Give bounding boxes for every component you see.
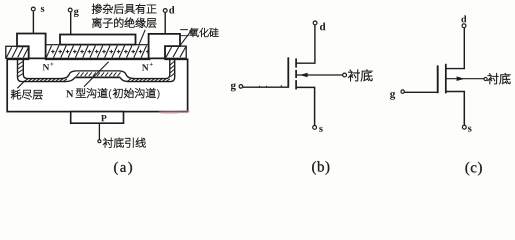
label: substrate lead (chen di yin xian) — [103, 138, 146, 148]
pointer from depletion label to depletion band — [17, 81, 25, 89]
drain metal contact — [149, 34, 180, 59]
annotation: doped insulating layer with positive ions (line 2) — [92, 18, 156, 28]
gate electrode bar (b) — [287, 57, 289, 88]
gate metal electrode — [60, 35, 136, 45]
label s — [41, 7, 45, 12]
stray tick marks on gate lead (b) — [260, 85, 282, 87]
label: substrate (b) — [348, 70, 372, 82]
channel segment top (b) — [295, 58, 297, 67]
drain connection (b) — [297, 25, 315, 63]
caption (a) — [114, 162, 132, 175]
N-type channel bottom line — [75, 76, 120, 78]
right N+ well inner boundary — [120, 59, 170, 78]
label s (b) — [319, 127, 323, 132]
drain contact window (gap in surface line) — [150, 58, 164, 60]
N-type channel top line — [76, 70, 120, 72]
MOSFET symbol (b): gate terminal g — [239, 85, 287, 89]
drain connection (c) — [447, 28, 465, 69]
left SiO2 oxide block — [6, 46, 29, 58]
drain terminal d (b) — [313, 21, 317, 25]
left N+ well inner boundary — [23, 59, 75, 78]
label d (b) — [320, 23, 326, 31]
source metal contact — [17, 34, 46, 59]
substrate terminal circle (c) — [484, 77, 487, 80]
MOSFET symbol (c): gate terminal g — [401, 90, 438, 93]
label d (c) — [461, 15, 466, 22]
pointer from SiO2 annotation to right oxide block — [180, 31, 191, 46]
terminal d (drain lead) — [163, 9, 167, 35]
insulating layer with positive ions (gate oxide) — [46, 45, 150, 59]
source connection (b) — [297, 87, 315, 125]
annotation: doped insulating layer with positive ions (line 1) — [92, 4, 156, 14]
P-type substrate body — [7, 59, 187, 111]
source connection (c) — [447, 92, 465, 126]
label P — [101, 115, 106, 121]
right N+ region label — [142, 64, 149, 70]
left N+ region label — [43, 64, 50, 70]
substrate terminal circle (b) — [343, 73, 347, 77]
caption (c) — [465, 162, 481, 176]
annotation: silicon dioxide — [180, 28, 219, 37]
source contact window (gap in surface line) — [29, 58, 45, 60]
red watermark smudge — [158, 110, 190, 114]
depletion layer outer boundary (right N+ well) — [120, 59, 175, 81]
terminal g (gate lead) — [68, 8, 72, 35]
source terminal s (b) — [313, 126, 317, 130]
label: depletion layer (hao jin ceng) — [11, 90, 43, 100]
terminal s (source lead) — [31, 7, 35, 34]
drain terminal d (c) — [462, 24, 466, 28]
pointer from channel label to channel — [84, 62, 109, 87]
gate electrode bar (c) — [437, 65, 439, 93]
channel segment middle (b) — [295, 70, 297, 78]
substrate lead with arrow (c) — [447, 76, 484, 81]
substrate lead with arrow (b) — [297, 73, 343, 78]
label s (c) — [468, 127, 472, 132]
label g (c) — [390, 92, 395, 100]
label g — [74, 9, 79, 17]
depletion layer outer boundary (left N+ well) — [18, 59, 75, 81]
label: substrate (c) — [488, 73, 511, 84]
label d — [169, 6, 174, 13]
P region contact block — [71, 112, 124, 124]
source terminal s (c) — [462, 125, 466, 129]
channel line solid (c) — [445, 64, 447, 94]
depletion layer hatching — [18, 62, 174, 82]
pointer from insulator annotation to oxide layer — [139, 30, 146, 46]
caption (b) — [312, 161, 329, 175]
substrate wire — [98, 123, 100, 140]
channel segment bottom (b) — [295, 80, 297, 89]
label g (b) — [231, 83, 236, 91]
right SiO2 oxide block — [165, 46, 186, 58]
substrate terminal — [98, 140, 101, 143]
label: N-type channel (initial channel) — [66, 90, 73, 97]
